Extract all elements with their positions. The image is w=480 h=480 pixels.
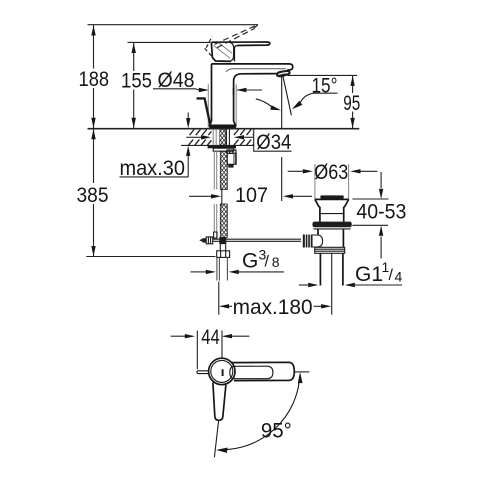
plan view: lever inner line	[230, 366, 273, 379]
svg-text:Ø63: Ø63	[314, 161, 348, 184]
dimension 188	[79, 25, 110, 128]
aerator at spout tip	[276, 70, 291, 77]
water stream 15 degree line	[283, 75, 292, 115]
svg-text:95: 95	[343, 92, 360, 115]
extension line 95 top	[288, 74, 358, 76]
drain flange taper	[315, 199, 349, 221]
shank nut	[213, 148, 234, 151]
svg-text:155: 155	[121, 70, 152, 93]
drain: dimension diameter 63	[288, 161, 378, 199]
dimension max.180	[219, 282, 332, 320]
angle arc left with arrow	[256, 99, 281, 110]
knurled nut on side port	[303, 235, 312, 248]
svg-text:40-53: 40-53	[356, 201, 406, 224]
plan view: lever pointing down	[213, 383, 226, 421]
threaded shank washer	[208, 146, 236, 148]
handle raised position (dashed)	[205, 25, 258, 58]
drain o-ring band	[312, 222, 351, 228]
hose fitting below shank	[219, 237, 226, 244]
faucet base plate	[209, 125, 236, 128]
water stream vertical reference	[281, 77, 283, 129]
plan view: lever pointing right	[232, 362, 295, 380]
pop-up pull rod at body	[197, 98, 211, 126]
supply hose	[220, 244, 225, 251]
dimension G1 1/4	[299, 259, 403, 287]
svg-text:95°: 95°	[261, 420, 292, 443]
counter hatching	[189, 130, 254, 146]
svg-text:15°: 15°	[312, 74, 338, 97]
dimension arrows body diameter 48	[196, 88, 263, 92]
svg-text:8: 8	[272, 254, 280, 270]
faucet body outline	[210, 64, 293, 125]
vertical rod to clamp	[214, 232, 217, 238]
svg-text:Ø34: Ø34	[256, 131, 291, 154]
plan view: horizontal reference line	[295, 371, 310, 373]
pop-up horizontal rod	[213, 239, 301, 241]
label 15 degrees	[312, 74, 338, 97]
dimension 385	[77, 129, 109, 256]
drain pop-up plug head	[320, 195, 344, 198]
angle arc 95 degrees	[216, 372, 302, 453]
counter bottom line	[181, 144, 254, 146]
label diameter 34 with box	[254, 129, 292, 154]
plan view: lever axis extension	[214, 421, 218, 458]
drain body below flange	[318, 229, 343, 247]
svg-text:4: 4	[395, 269, 403, 285]
top reference line (max handle height)	[88, 25, 259, 29]
handle body	[211, 42, 233, 61]
drain side port	[312, 235, 323, 247]
svg-text:max.180: max.180	[233, 296, 313, 319]
dimension 155	[121, 43, 152, 129]
drain coupling nut	[315, 247, 345, 253]
dimension G3/8	[191, 247, 285, 275]
extension lines base diameter (grey)	[208, 84, 236, 127]
dimension hole diameter 34	[186, 135, 253, 139]
svg-text:385: 385	[77, 184, 109, 207]
extension line 155 top	[128, 41, 211, 43]
dimension 40-53	[352, 172, 406, 259]
counter top line	[88, 128, 360, 130]
plan view: ball outer circle	[209, 358, 235, 384]
plan view: dimension 44	[171, 326, 250, 369]
svg-text:G: G	[242, 250, 258, 273]
supply pipe	[217, 257, 228, 280]
dimension max.30	[119, 113, 190, 181]
svg-text:/: /	[389, 267, 394, 284]
dimension 107 spout projection	[189, 157, 312, 207]
spout shoulder hint line	[226, 69, 286, 72]
extension line 385 bottom	[86, 256, 215, 258]
pop-up rod below counter	[214, 151, 216, 237]
label diameter 48	[153, 69, 196, 92]
handle lever (solid)	[211, 42, 269, 61]
svg-text:107: 107	[235, 184, 268, 207]
side fixing fitting	[227, 150, 236, 168]
plan view: center dash	[222, 369, 224, 376]
drain tailpipe	[320, 253, 343, 285]
shank through counter hole	[213, 129, 229, 145]
drain flange top	[315, 198, 349, 200]
hose nut G3/8	[217, 251, 230, 258]
angle leader from 15 deg label with arrow	[292, 93, 314, 109]
svg-text:188: 188	[79, 68, 110, 91]
dimension 95	[343, 76, 360, 129]
svg-text:/: /	[265, 254, 270, 271]
plan view: pin	[197, 371, 210, 374]
svg-text:G1: G1	[355, 263, 383, 286]
tailpipe centerline	[331, 253, 333, 314]
rod clamp screw	[199, 237, 212, 244]
plan view: ball inner circle	[211, 360, 233, 382]
svg-text:44: 44	[201, 326, 220, 349]
threaded shank (cross hatch)	[220, 151, 227, 237]
